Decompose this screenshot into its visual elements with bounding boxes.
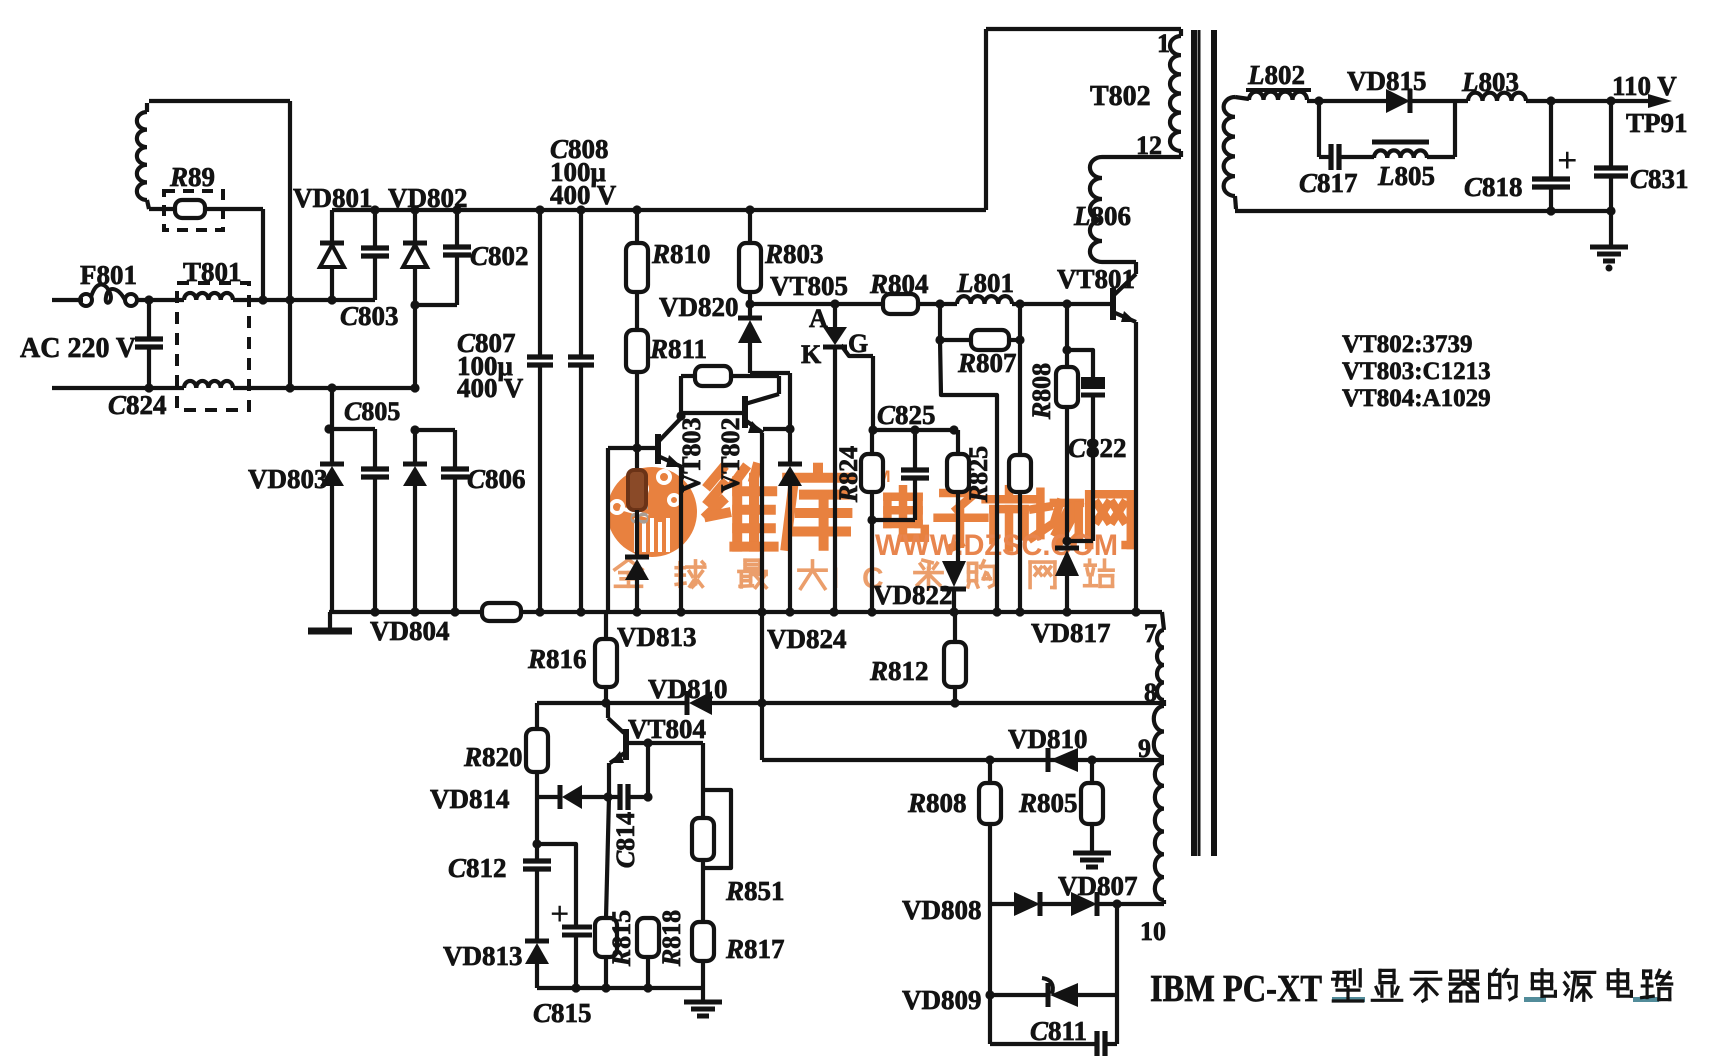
svg-text:VD810: VD810: [648, 674, 728, 704]
wire C805 top: [329, 427, 375, 431]
node gnd bus x375: [370, 607, 379, 616]
node C824 bottom: [144, 383, 153, 392]
svg-text:VT805: VT805: [770, 271, 848, 301]
diode VD813b: [525, 939, 549, 944]
node C825 mid: [910, 425, 919, 434]
svg-text:R815: R815: [607, 910, 636, 967]
node bus x415: [410, 205, 419, 214]
node gnd bus x762: [757, 607, 766, 616]
svg-text:VD809: VD809: [902, 985, 982, 1015]
svg-text:VD824: VD824: [767, 624, 847, 654]
wire branch right riser: [1453, 101, 1457, 157]
wire x1020 to bus: [1018, 492, 1022, 612]
wire L806 to collector: [1102, 260, 1136, 264]
wire VD804 to gnd bus: [413, 486, 417, 612]
wire C812 top: [535, 797, 539, 860]
diode VD824: [778, 462, 802, 467]
resistor R813: [628, 470, 646, 510]
wire L802 to VD815: [1307, 99, 1388, 103]
resistor R89: [175, 200, 205, 218]
wire C822 bottom: [1091, 395, 1095, 541]
svg-text:VD804: VD804: [370, 616, 450, 646]
svg-text:VT804:A1029: VT804:A1029: [1342, 385, 1491, 412]
resistor R825: [947, 454, 969, 492]
svg-text:R851: R851: [725, 876, 785, 906]
wire VD813b down: [535, 964, 539, 988]
capacitor C808 body: [568, 354, 594, 359]
resistor R805: [1081, 783, 1103, 824]
svg-text:+: +: [1557, 140, 1578, 180]
wire riser to T802: [984, 29, 988, 210]
node fuse-C824 junction: [144, 295, 153, 304]
resistor R802: [695, 366, 731, 386]
node C815 branch: [532, 839, 541, 848]
node R807 left: [935, 335, 944, 344]
node gnd bus x581: [576, 607, 585, 616]
node R825 top: [949, 425, 958, 434]
svg-text:R807: R807: [957, 348, 1017, 378]
wire pin7 stub: [1162, 612, 1164, 630]
diode VD814: [558, 785, 563, 809]
svg-text:IBM PC-XT: IBM PC-XT: [1150, 968, 1322, 1010]
wire VT802 emitter column: [760, 433, 764, 760]
node bus x375: [370, 205, 379, 214]
wire R818 down: [646, 957, 650, 988]
transformer T802 primary winding pins 1-12: [1179, 29, 1183, 36]
svg-text:R804: R804: [869, 269, 929, 299]
wire C818 top stub: [1549, 101, 1553, 178]
T802 winding pins 7-8: [1157, 630, 1164, 700]
resistor R803: [739, 243, 761, 292]
jumper on bus: [482, 603, 521, 621]
wire C811 bottom l: [990, 1042, 1095, 1046]
wire x1117 down: [1115, 904, 1119, 1044]
wire x872 to bus: [870, 520, 874, 612]
diode VD802: [403, 241, 427, 246]
wire R817 down: [701, 961, 705, 988]
resistor R815: [595, 918, 617, 957]
node VD801 col on AC top: [327, 295, 336, 304]
wire C807 column top: [538, 210, 542, 356]
resistor R851: [692, 818, 714, 860]
wire R851 bypass loop: [703, 790, 731, 868]
wire VT802 base wire: [681, 411, 742, 415]
wire C822 top: [1067, 350, 1093, 377]
svg-text:R89: R89: [169, 162, 215, 192]
wire pin8 right: [712, 701, 1164, 705]
caption Chinese: 型显示器的电源电路: [1333, 970, 1363, 1001]
svg-text:L805: L805: [1377, 161, 1435, 191]
wire R805 down: [1090, 824, 1094, 852]
node C831 top: [1606, 96, 1615, 105]
wire R89 top loop: [149, 99, 290, 103]
wire VD804 stub: [413, 430, 417, 464]
svg-text:C802: C802: [470, 241, 529, 271]
wire R808 top: [1065, 304, 1069, 367]
svg-text:R816: R816: [527, 644, 587, 674]
capacitor C811: [1094, 1031, 1099, 1057]
wire VD822 to bus: [952, 589, 956, 612]
node R816-pin8: [601, 698, 610, 707]
svg-text:C806: C806: [467, 464, 526, 494]
fuse F801: [80, 294, 92, 306]
svg-text:R824: R824: [834, 446, 863, 503]
svg-text:A: A: [809, 304, 828, 333]
svg-text:L806: L806: [1073, 201, 1131, 231]
svg-text:VD815: VD815: [1347, 66, 1427, 96]
svg-text:7: 7: [1144, 619, 1157, 648]
svg-text:R803: R803: [764, 239, 824, 269]
svg-text:R808: R808: [907, 788, 967, 818]
wire L803 to output: [1526, 99, 1652, 103]
transistor VT802: [742, 396, 748, 428]
diode VD809: [1046, 983, 1051, 1007]
node C806 row left: [410, 425, 419, 434]
node VD820 top: [745, 299, 754, 308]
wire VT804 collector diag: [608, 718, 624, 733]
resistor R808b: [979, 783, 1001, 824]
wire C815 branch: [537, 844, 576, 925]
node gnd bus x1020: [1015, 607, 1024, 616]
svg-text:C815: C815: [533, 998, 592, 1028]
wire VT804 base wire: [629, 741, 703, 745]
svg-text:L801: L801: [956, 268, 1014, 298]
wire C807 column bottom: [538, 366, 542, 612]
wire C806 to gnd bus: [453, 477, 457, 612]
svg-text:C803: C803: [340, 301, 399, 331]
node bottom rail x576: [571, 983, 580, 992]
svg-text:AC 220 V: AC 220 V: [20, 333, 136, 364]
T802 winding pins 8-9: [1154, 706, 1164, 757]
wire T802 top: [986, 27, 1181, 31]
node C817 branch: [1314, 96, 1323, 105]
wire R810-R811: [635, 292, 639, 330]
wire R851-R817: [701, 860, 705, 922]
wire stub left: [763, 427, 790, 431]
node R807 right: [1015, 335, 1024, 344]
wire C825 bottom stub: [913, 478, 917, 520]
wire VT801 collector diag: [1113, 274, 1136, 296]
dashed box around R89: [164, 191, 223, 230]
T802 winding pins 9-10: [1155, 763, 1164, 900]
wire R807 left riser: [938, 304, 942, 340]
wire VT803 base: [608, 446, 655, 450]
node bus x637: [632, 205, 641, 214]
node x263 on AC top: [258, 295, 267, 304]
node x290 on AC top: [285, 295, 294, 304]
wire C825 stub: [913, 430, 917, 469]
T802 secondary winding (output): [1224, 97, 1235, 196]
node pin10 tap: [1112, 899, 1121, 908]
svg-text:R811: R811: [649, 334, 707, 364]
node R808b top: [985, 755, 994, 764]
wire C815 down: [574, 936, 578, 988]
wire coil top stub: [145, 103, 149, 112]
wire VT805 cathode to bus: [833, 347, 837, 612]
inductor winding left of R89: [137, 112, 147, 200]
svg-text:VD813: VD813: [617, 622, 697, 652]
wire R812 bottom: [953, 687, 957, 703]
resistor R807: [971, 330, 1009, 350]
wire VT805 gate: [841, 345, 873, 356]
wire VT803 emitter diag: [658, 456, 682, 467]
node gnd bus x954: [949, 607, 958, 616]
wire sec bottom corner: [1235, 196, 1236, 209]
node R805 top: [1087, 755, 1096, 764]
svg-text:VT802: VT802: [716, 417, 745, 492]
ground R805: [1073, 851, 1111, 856]
ground symbol left: [328, 612, 332, 628]
transistor VT804: [623, 729, 629, 760]
node gnd bus x455: [450, 607, 459, 616]
wire VT804 emitter diag: [610, 752, 626, 763]
capacitor C803: [361, 245, 389, 250]
node base wire x637: [632, 443, 641, 452]
wire R805 stub: [1090, 760, 1094, 783]
svg-text:VD803: VD803: [248, 464, 328, 494]
inductor L805: [1374, 150, 1427, 158]
wire VT802 collector diag: [745, 394, 779, 404]
wire VT802 emitter diag: [745, 420, 763, 433]
svg-text:K: K: [801, 340, 822, 369]
svg-text:VD817: VD817: [1031, 618, 1111, 648]
wire VT805 anode stub: [833, 304, 837, 327]
wire VD808-VD807: [1040, 902, 1071, 906]
wire VD809 lead: [990, 993, 1048, 997]
wire C817 lead: [1319, 155, 1330, 159]
svg-text:VT802:3739: VT802:3739: [1342, 331, 1473, 358]
node C805 row left: [324, 424, 333, 433]
wire L801 to VT801 base: [1012, 302, 1110, 306]
wire y304: [750, 302, 883, 306]
wire vertical x290: [288, 101, 292, 388]
capacitor C802: [443, 244, 471, 249]
wire x997 path: [940, 340, 997, 612]
resistor R808: [1056, 367, 1078, 407]
svg-text:VD814: VD814: [430, 784, 510, 814]
wire VT801 emitter to bus: [1134, 322, 1138, 612]
diode VD820: [738, 316, 762, 321]
wire R820 bottom: [535, 772, 539, 797]
svg-text:VT801: VT801: [1057, 264, 1135, 294]
inductor L802: [1249, 92, 1307, 100]
wire VD802 down: [413, 267, 417, 388]
svg-text:TP91: TP91: [1626, 108, 1688, 138]
capacitor C807: [527, 354, 553, 359]
wire C824 top stub: [147, 300, 151, 338]
caption teal marks: [1332, 997, 1365, 1002]
wire loop lead l: [681, 374, 695, 378]
wire x332 to C805 row: [330, 388, 334, 429]
wire L805 right: [1427, 155, 1455, 159]
node VT805 anode: [830, 299, 839, 308]
svg-text:R820: R820: [463, 742, 523, 772]
transistor VT803: [655, 434, 661, 464]
resistor R817: [692, 922, 714, 961]
watermark logo inner art: [634, 518, 638, 552]
svg-text:G: G: [848, 329, 868, 358]
output arrow 110V: [1648, 94, 1672, 108]
wire coil bottom stub: [147, 200, 149, 209]
resistor R818: [637, 918, 659, 957]
wire C824 bottom stub: [147, 347, 151, 388]
wire ground bus right: [521, 610, 1162, 614]
svg-text:R817: R817: [725, 934, 785, 964]
wire C806 stub: [453, 430, 457, 468]
capacitor C818: [1532, 176, 1570, 181]
wire R807 lead r: [1009, 338, 1020, 342]
wire C803 bottom stub: [373, 256, 377, 300]
wire x608 down to bus: [606, 448, 610, 612]
wire C808 column bottom: [579, 366, 583, 612]
wire VD815 to L803: [1410, 99, 1468, 103]
wire AC bottom left: [52, 386, 184, 390]
node gnd bus x997: [992, 607, 1001, 616]
node above VD817: [1062, 536, 1071, 545]
resistor R812: [944, 642, 966, 687]
wire C831 bottom stub: [1609, 176, 1613, 211]
wire VT804 collector stub: [606, 703, 610, 718]
thyristor VT805: [823, 327, 847, 345]
node gnd bus x540: [535, 607, 544, 616]
capacitor C814: [617, 784, 622, 810]
svg-text:C831: C831: [1630, 164, 1689, 194]
wire x1020 down: [1018, 304, 1022, 455]
wire secondary bottom rail: [1235, 209, 1613, 213]
node VD802-C802: [410, 300, 419, 309]
wire R825 stub: [956, 430, 960, 454]
svg-text:R825: R825: [964, 446, 993, 503]
wire R807 lead l: [940, 338, 971, 342]
capacitor C824: [135, 336, 163, 341]
node C822 tap: [1062, 345, 1071, 354]
wire VD803 to gnd bus: [330, 486, 334, 612]
wire VD803 stub: [330, 429, 334, 464]
node gnd bus x415: [410, 607, 419, 616]
svg-text:C825: C825: [877, 400, 936, 430]
svg-text:VD820: VD820: [659, 292, 739, 322]
svg-text:8: 8: [1144, 678, 1157, 707]
wire R803 stub: [748, 210, 752, 243]
svg-text:L802: L802: [1247, 60, 1305, 90]
wire to C802 bottom: [415, 303, 457, 307]
node VT803 collector: [676, 411, 685, 420]
wire R808 bottom: [1065, 407, 1069, 541]
diode VD808: [1014, 892, 1040, 916]
wire R824 bottom: [870, 492, 874, 520]
svg-text:T801: T801: [183, 257, 242, 287]
wire jog right: [750, 371, 790, 375]
resistor R810: [626, 243, 648, 292]
capacitor C812: [523, 858, 551, 863]
wire C806 top: [415, 428, 455, 432]
inductor L806: [1090, 157, 1102, 262]
wire VD824 to bus: [788, 486, 792, 612]
diode VD822: [942, 587, 966, 592]
node emitter-y797: [603, 792, 612, 801]
wire VT801 collector up: [1134, 262, 1138, 274]
node gate-C825: [868, 425, 877, 434]
node VD809 left: [985, 990, 994, 999]
node R824-C825: [867, 515, 876, 524]
wire R812 top: [953, 612, 957, 642]
wire C802 top stub: [455, 210, 459, 246]
wire ground bus left: [329, 610, 482, 614]
resistor R811: [626, 330, 648, 372]
wire C825 bottom join: [872, 518, 915, 522]
wire x263 down: [261, 209, 265, 300]
wire AC top to C803: [233, 298, 375, 302]
node bottom rail x606: [601, 983, 610, 992]
wire x790 down: [788, 373, 792, 464]
wire C817 to L805: [1341, 155, 1374, 159]
wire loop right down: [777, 376, 781, 394]
wire R816 bottom: [604, 687, 608, 703]
wire VD802 top stub: [413, 210, 417, 243]
wire pin9: [762, 758, 1164, 762]
wire join R808-C822: [1067, 539, 1093, 543]
node gnd bus x790: [785, 607, 794, 616]
diode VD804: [403, 462, 427, 467]
wire R824 stub: [870, 430, 874, 454]
inductor L803: [1468, 93, 1526, 101]
wire R808b down: [988, 824, 992, 904]
svg-text:VT803:C1213: VT803:C1213: [1342, 358, 1491, 385]
wire y797 b: [582, 795, 618, 799]
wire C812 bottom: [535, 869, 539, 941]
svg-text:C805: C805: [344, 397, 400, 426]
node x290 bottom: [285, 383, 294, 392]
resistor R824: [861, 454, 883, 492]
wire loop left: [679, 376, 683, 416]
node gnd bus x681: [676, 607, 685, 616]
svg-text:C818: C818: [1464, 172, 1523, 202]
wire fuse to T801: [137, 298, 184, 302]
diode VD810: [685, 691, 690, 715]
watermark slogan line: [615, 560, 642, 587]
wire AC bottom right: [233, 386, 415, 390]
svg-text:L803: L803: [1461, 67, 1519, 97]
inductor L801: [957, 296, 1012, 304]
svg-text:R810: R810: [651, 239, 711, 269]
resistor R816: [595, 639, 617, 687]
node gnd bus x637: [632, 607, 641, 616]
node x1020 top: [1015, 299, 1024, 308]
transistor VT801: [1110, 288, 1116, 320]
svg-text:1: 1: [1157, 29, 1170, 58]
svg-text:R818: R818: [657, 910, 686, 967]
svg-text:400 V: 400 V: [457, 373, 524, 403]
capacitor C806: [441, 466, 469, 471]
wire y797 c: [630, 795, 648, 799]
svg-text:C824: C824: [108, 390, 167, 420]
node VD802 col bottom: [410, 383, 419, 392]
wire VT801 emitter diag: [1113, 312, 1136, 322]
wire R815 riser: [606, 797, 609, 918]
wire AC live in: [52, 298, 83, 302]
svg-text:C822: C822: [1068, 433, 1127, 463]
wire VT803 emitter to bus: [679, 467, 683, 612]
wire R815 down: [604, 957, 608, 988]
wire C805 to gnd bus: [373, 477, 377, 612]
resistor R820: [526, 729, 548, 772]
wire C803 top stub: [373, 210, 377, 247]
wire VD808 lead: [990, 902, 1014, 906]
wire loop lead r: [731, 374, 779, 378]
wire C808 column top: [579, 210, 583, 356]
wire sec top corner: [1235, 97, 1249, 99]
wire R811 to base node: [635, 372, 639, 448]
